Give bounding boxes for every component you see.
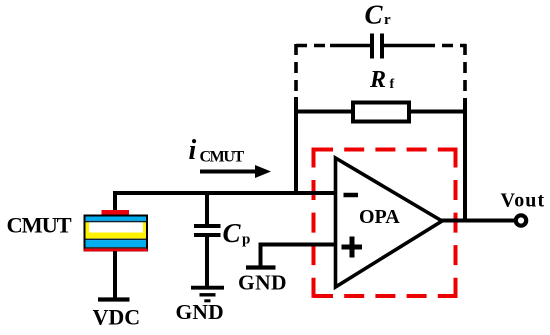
wire: CMUT bottom to VDC	[113, 251, 117, 298]
wire: feedback vertical right (Rf to output node)	[463, 98, 467, 223]
wire: non-inverting input down to ground	[259, 243, 263, 267]
wire: main input horizontal to op-amp inverting input	[113, 191, 336, 195]
svg-text:R: R	[369, 67, 386, 93]
CMUT top electrode (red)	[102, 210, 130, 215]
wire: non-inverting input horizontal	[261, 243, 337, 247]
wire: op-amp output to terminal	[440, 219, 514, 223]
CMUT body layers	[84, 216, 148, 252]
svg-text:OPA: OPA	[359, 206, 400, 228]
svg-text:C: C	[223, 218, 242, 248]
svg-text:VDC: VDC	[93, 305, 141, 330]
wire: Cr solid left lead	[330, 44, 370, 48]
svg-text:i: i	[189, 135, 197, 166]
wire: Cr dashed branch right segment	[424, 44, 466, 48]
VDC terminal bar	[98, 297, 130, 301]
wire: feedback vertical left (Rf to input node)	[294, 97, 298, 195]
wire: Cr dashed branch left segment	[296, 44, 332, 48]
resistor Rf	[353, 103, 409, 122]
svg-text:CMUT: CMUT	[7, 213, 72, 238]
svg-text:Vout: Vout	[501, 190, 546, 212]
output terminal circle	[516, 215, 526, 225]
wire: dashed vertical right of Cr loop	[463, 44, 467, 100]
svg-text:f: f	[390, 77, 395, 92]
op-amp plus sign	[342, 237, 363, 258]
wire: dashed vertical left of Cr loop	[294, 44, 298, 99]
wire: Rf branch horizontal	[296, 110, 465, 114]
ground symbol under Cp	[191, 288, 224, 301]
svg-text:p: p	[242, 232, 250, 248]
svg-text:C: C	[365, 0, 384, 30]
wire: Cp branch top	[205, 193, 209, 226]
svg-text:GND: GND	[238, 271, 287, 295]
wire: corner down to CMUT top electrode	[113, 191, 117, 211]
GND terminal bar (non-inverting input)	[246, 265, 276, 269]
capacitor Cr plates	[372, 34, 382, 59]
op-amp minus sign	[344, 193, 359, 198]
svg-text:GND: GND	[176, 300, 224, 324]
wire: Cr solid right lead	[384, 44, 424, 48]
op-amp U1 triangle	[336, 158, 443, 287]
svg-text:CMUT: CMUT	[200, 149, 245, 166]
wire: Cp to ground	[205, 236, 209, 286]
current arrow	[200, 170, 257, 174]
red dashed box around op-amp	[313, 148, 458, 299]
svg-text:r: r	[384, 12, 391, 28]
capacitor Cp plates	[194, 226, 221, 235]
